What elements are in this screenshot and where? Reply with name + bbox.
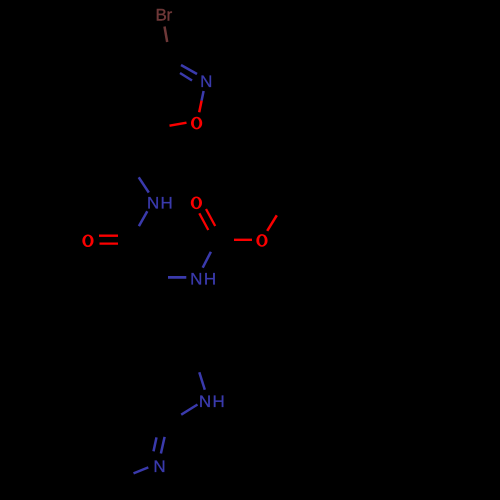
bond CH2-NH amide (N half) bbox=[139, 177, 149, 192]
svg-text:Br: Br bbox=[156, 6, 173, 25]
svg-text:N: N bbox=[200, 72, 212, 91]
atom label O1 (isoxazole) bbox=[191, 117, 202, 130]
svg-text:N: N bbox=[147, 194, 159, 213]
bond NH-C7a (N half) bbox=[181, 405, 197, 415]
double bond C7a=N7 (N halves) bbox=[154, 437, 157, 451]
svg-text:N: N bbox=[153, 457, 165, 476]
bond O1-C5 (O half) bbox=[170, 123, 187, 126]
bond NH-C(carbamate) (N half) bbox=[203, 252, 211, 268]
azaindole: bond C2-NH (N half) bbox=[199, 372, 205, 390]
svg-text:H: H bbox=[160, 194, 172, 213]
amide carbonyl O label bbox=[82, 234, 93, 247]
double bond C3=N2 (N halves) bbox=[181, 65, 197, 74]
svg-text:H: H bbox=[204, 269, 216, 288]
bond C(carbamate)-O ester (O half) bbox=[234, 239, 252, 241]
double bond O=C amide (O halves) bbox=[99, 235, 118, 237]
bond N2-O1 (O half) bbox=[199, 101, 201, 113]
bond N2-O1 (N half) bbox=[202, 91, 204, 101]
carbamate carbonyl O label bbox=[191, 197, 202, 210]
bond alphaC-NH carbamate (N half) bbox=[168, 276, 186, 279]
bond Br-C3 (bromine half) bbox=[165, 27, 168, 43]
ester O label bbox=[256, 234, 267, 247]
svg-text:N: N bbox=[190, 269, 202, 288]
bond O-CH2 benzyl (O half) bbox=[267, 215, 277, 231]
svg-text:H: H bbox=[212, 392, 224, 411]
bond N7-C6 (N half) bbox=[134, 467, 149, 473]
double bond O=C carbamate (O halves) bbox=[206, 209, 215, 226]
bond NH-C(amide) (N half) bbox=[139, 211, 147, 226]
svg-text:N: N bbox=[199, 392, 211, 411]
